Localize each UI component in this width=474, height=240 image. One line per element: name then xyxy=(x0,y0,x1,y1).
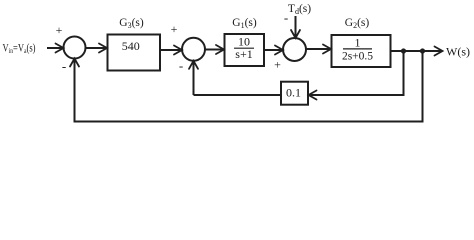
svg-text:G1(s): G1(s) xyxy=(232,17,257,30)
svg-text:-: - xyxy=(62,59,66,74)
svg-text:G2(s): G2(s) xyxy=(345,17,370,30)
svg-text:+: + xyxy=(274,58,281,72)
svg-text:s+1: s+1 xyxy=(235,47,252,61)
svg-text:-: - xyxy=(284,10,288,25)
svg-text:+: + xyxy=(171,22,178,36)
svg-text:-: - xyxy=(179,58,183,73)
svg-text:2s+0.5: 2s+0.5 xyxy=(342,51,373,63)
svg-text:540: 540 xyxy=(122,39,140,53)
svg-text:Td(s): Td(s) xyxy=(288,3,311,16)
svg-text:1: 1 xyxy=(355,35,361,49)
svg-text:Vin=Va(s): Vin=Va(s) xyxy=(3,42,36,55)
svg-text:0.1: 0.1 xyxy=(286,86,301,100)
svg-text:G3(s): G3(s) xyxy=(119,17,144,30)
svg-text:+: + xyxy=(56,23,63,37)
svg-text:W(s): W(s) xyxy=(446,45,470,59)
